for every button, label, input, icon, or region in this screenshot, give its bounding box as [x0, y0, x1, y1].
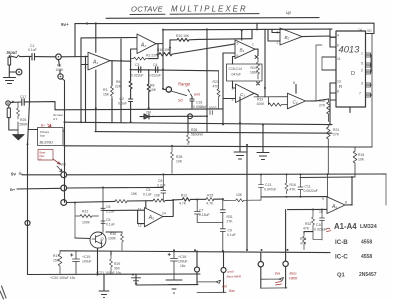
- wire rail right end drop: [373, 23, 375, 33]
- wire C3C4 line: [131, 70, 219, 71]
- svg-text:9: 9: [322, 197, 324, 201]
- op-amp A5: [144, 208, 163, 227]
- svg-text:13: 13: [337, 80, 341, 84]
- svg-text:.0033: .0033: [208, 106, 217, 110]
- svg-text:flow: flow: [229, 289, 235, 293]
- svg-text:0.1uF: 0.1uF: [227, 233, 236, 237]
- bus wire y131.5: [95, 132, 332, 134]
- node circle on left bus: [25, 221, 30, 226]
- left bus vertical x27.5: [28, 57, 30, 275]
- svg-text:47K: 47K: [303, 227, 310, 231]
- RANGE switch ring: [166, 87, 171, 92]
- svg-text:in: in: [40, 158, 43, 161]
- svg-text:R17: R17: [53, 254, 59, 258]
- svg-text:C3: C3: [135, 63, 139, 67]
- svg-text:2N5457: 2N5457: [359, 272, 377, 278]
- svg-text:A₁: A₁: [92, 60, 98, 66]
- wire y198 feedback: [173, 198, 223, 201]
- svg-text:R24: R24: [251, 66, 257, 70]
- wire y177 feedback: [300, 176, 355, 179]
- BLEND box: [38, 128, 64, 146]
- svg-text:C17: C17: [20, 95, 26, 99]
- vertical x121: [120, 39, 122, 122]
- wire jack sleeve bar: [9, 65, 16, 72]
- 9V supply rail: [75, 22, 374, 24]
- svg-text:Pickups: Pickups: [40, 130, 50, 134]
- svg-text:up: up: [286, 10, 292, 15]
- node circle on y116: [188, 114, 193, 119]
- svg-text:16v: 16v: [180, 264, 186, 268]
- red arrow to AMP: [53, 159, 60, 164]
- input jack J1: [8, 57, 11, 65]
- wire R1 column: [59, 60, 65, 203]
- node D circle: [61, 172, 67, 178]
- wire x352 down to A6 out: [351, 177, 353, 205]
- title underline: [130, 13, 259, 16]
- output jack J2 tip node: [6, 101, 10, 105]
- svg-text:10K: 10K: [236, 193, 243, 197]
- svg-text:+C21 100uF 16v: +C21 100uF 16v: [96, 271, 121, 275]
- ground small x136: [132, 278, 141, 284]
- arrow to node D: [57, 166, 62, 172]
- 4013 pin left y100: [330, 99, 336, 101]
- vertical x207 dark: [206, 29, 208, 131]
- svg-text:2: 2: [361, 69, 363, 73]
- bus from node D: [66, 173, 386, 176]
- svg-text:0.1uF: 0.1uF: [106, 223, 115, 227]
- svg-text:10K: 10K: [358, 158, 365, 162]
- wire R12 to Q1 gate: [75, 237, 90, 240]
- capacitor box C15,C14: [227, 64, 263, 81]
- svg-text:R: R: [339, 84, 342, 89]
- wire jack2 to C17: [10, 101, 21, 104]
- svg-text:graß: graß: [228, 270, 234, 274]
- bus y285: [104, 274, 198, 290]
- svg-text:B+: B+: [10, 187, 16, 192]
- svg-text:8: 8: [293, 81, 295, 85]
- svg-text:Bass: Bass: [290, 272, 297, 276]
- red scribbles arrows: [276, 282, 282, 286]
- wire x109 link: [110, 251, 112, 255]
- svg-text:4558: 4558: [361, 240, 372, 246]
- svg-text:5: 5: [361, 62, 363, 66]
- op-amp A1: [88, 52, 110, 70]
- wire Q1 drain up: [101, 188, 105, 233]
- ring node circle: [16, 69, 22, 75]
- check mark jack2: [11, 101, 14, 103]
- op-amp B1 (IC-B): [235, 40, 255, 59]
- svg-text:5: 5: [237, 42, 239, 46]
- switch lever: [171, 91, 187, 96]
- wire B1 output: [255, 29, 265, 97]
- svg-text:100K: 100K: [257, 102, 266, 106]
- svg-text:590R: 590R: [20, 123, 29, 127]
- svg-text:Amp: Amp: [59, 163, 67, 167]
- svg-text:LM324: LM324: [360, 224, 377, 230]
- svg-text:A1-A4: A1-A4: [334, 222, 357, 231]
- svg-text:11: 11: [138, 208, 142, 212]
- node circle H: [258, 262, 263, 267]
- bus wire y108: [55, 108, 223, 111]
- 4013 pin left y47: [330, 46, 336, 48]
- wire right bus x386: [385, 174, 387, 205]
- 4013 pin 4: [330, 36, 336, 38]
- ground (C18): [166, 280, 182, 293]
- svg-text:4013: 4013: [339, 44, 361, 55]
- svg-text:27K: 27K: [319, 104, 326, 108]
- svg-text:27K: 27K: [227, 220, 234, 224]
- wire jack2 stem: [9, 118, 18, 130]
- svg-text:B+: B+: [41, 124, 45, 128]
- svg-text:VD: VD: [367, 29, 372, 33]
- svg-text:47K: 47K: [290, 188, 297, 192]
- svg-text:C15,C14: C15,C14: [229, 67, 242, 71]
- svg-text:C13: C13: [265, 183, 271, 187]
- op-amp B2: [280, 28, 302, 45]
- svg-text:C16: C16: [196, 101, 202, 105]
- wire jog to R15: [355, 146, 372, 148]
- svg-text:R15: R15: [358, 153, 364, 157]
- wire switch to x163: [163, 88, 166, 90]
- wire B2 output to 4013: [302, 36, 336, 37]
- svg-text:14: 14: [162, 212, 166, 216]
- wire x247 drop: [246, 145, 248, 250]
- x mark top: [255, 56, 258, 59]
- svg-text:C2: C2: [120, 97, 124, 101]
- wire A5 input loop: [138, 210, 145, 223]
- ground (mid x263): [257, 125, 269, 160]
- svg-text:180K: 180K: [250, 71, 259, 75]
- svg-text:R28: R28: [176, 155, 182, 159]
- wire x223 vertical: [222, 53, 224, 124]
- svg-text:1: 1: [361, 52, 363, 56]
- ground small x104: [99, 291, 109, 298]
- svg-text:A₆: A₆: [331, 204, 337, 210]
- svg-text:R22: R22: [257, 98, 263, 102]
- svg-text:4: 4: [337, 34, 339, 38]
- svg-text:Input: Input: [7, 50, 18, 55]
- wire input to C1: [9, 56, 31, 58]
- output jack J2 body: [7, 105, 10, 117]
- capacitor C4: [156, 67, 158, 73]
- svg-text:C9: C9: [228, 229, 232, 233]
- node F circle: [61, 200, 67, 206]
- bus wire y145: [65, 146, 355, 147]
- svg-text:R10 10K: R10 10K: [176, 34, 190, 38]
- svg-text:0.022uF: 0.022uF: [314, 228, 326, 232]
- 4013 pin left y93: [330, 92, 336, 94]
- svg-text:9v+: 9v+: [61, 22, 69, 27]
- svg-text:10K: 10K: [154, 193, 161, 197]
- svg-text:B₁: B₁: [240, 48, 245, 53]
- svg-text:0.1uF: 0.1uF: [143, 193, 152, 197]
- svg-text:1: 1: [252, 43, 254, 47]
- svg-text:11: 11: [337, 57, 341, 61]
- bus from node E: [66, 186, 162, 189]
- wire A6 output: [345, 204, 352, 206]
- node circle I: [283, 261, 288, 266]
- 4013 right pin bumps: [366, 53, 371, 57]
- parts list text block: [334, 222, 377, 279]
- svg-text:47K: 47K: [300, 242, 307, 246]
- wire R26 junction: [187, 116, 189, 133]
- 4013 pin 14 top right: [366, 33, 375, 35]
- svg-text:IC-B: IC-B: [335, 239, 348, 246]
- svg-text:R32: R32: [305, 222, 311, 226]
- svg-text:Bass: Bass: [40, 151, 47, 155]
- svg-text:0.0068uF: 0.0068uF: [193, 105, 207, 109]
- svg-text:0.15uF: 0.15uF: [199, 213, 210, 217]
- svg-text:0.047uF: 0.047uF: [264, 188, 276, 192]
- svg-text:.047uF: .047uF: [231, 73, 242, 77]
- IC 4013 box: [336, 31, 366, 107]
- ground (mid x240): [234, 97, 246, 159]
- bottom bus y250.7: [60, 251, 330, 253]
- capacitor C1: [32, 54, 35, 61]
- vertical wire x75 rail to input line: [74, 24, 76, 57]
- svg-text:BLEND: BLEND: [40, 140, 53, 145]
- svg-text:27K: 27K: [333, 133, 340, 137]
- 4013 pin left y83: [330, 82, 336, 84]
- svg-text:4.7K: 4.7K: [179, 202, 187, 206]
- svg-text:C5: C5: [146, 188, 150, 192]
- node circle G2: [221, 268, 226, 273]
- 4013 pin right y85: [366, 84, 372, 86]
- wire x257 top: [256, 23, 258, 30]
- svg-text:0.1uF: 0.1uF: [28, 48, 37, 52]
- 4013 pin left y70: [322, 69, 336, 71]
- 4013 bottom pin stub: [349, 107, 351, 113]
- wire A6 input bottom y210: [288, 208, 328, 210]
- svg-text:A₅: A₅: [148, 215, 154, 221]
- wire blend box to bus: [28, 130, 65, 132]
- svg-text:4558: 4558: [361, 254, 372, 260]
- svg-text:8: 8: [345, 201, 347, 205]
- wire R3 to bus: [111, 99, 113, 123]
- svg-text:0.022uF: 0.022uF: [131, 74, 143, 78]
- op-amp A6: [327, 197, 345, 214]
- red scribble mark: [326, 228, 331, 231]
- svg-text:R13: R13: [181, 193, 187, 197]
- switch contacts: [188, 90, 192, 97]
- svg-text:9v: 9v: [11, 172, 16, 177]
- wire x316 loop vertical: [316, 45, 322, 101]
- wire B2 inputs: [268, 29, 280, 41]
- svg-text:100uF: 100uF: [82, 260, 92, 264]
- wire node to A1: [61, 56, 88, 58]
- svg-text:R18 10K: R18 10K: [157, 48, 171, 52]
- wire bias column x85.5: [85, 57, 87, 123]
- svg-text:wot: wot: [194, 93, 201, 97]
- svg-text:MULTIPLEXER: MULTIPLEXER: [171, 5, 248, 14]
- svg-text:C8: C8: [106, 205, 110, 209]
- wire A6 input top y200.5: [261, 196, 327, 198]
- wire C1 output: [254, 93, 258, 97]
- svg-text:3: 3: [361, 82, 363, 86]
- svg-text:R21: R21: [333, 128, 339, 132]
- svg-text:Bass-filt€R: Bass-filt€R: [227, 275, 242, 279]
- wire A1 output: [110, 59, 131, 70]
- svg-text:C11: C11: [305, 185, 311, 189]
- svg-text:15K: 15K: [131, 192, 138, 196]
- wire A1 feedback top link: [81, 23, 137, 122]
- svg-text:the base: the base: [53, 113, 64, 117]
- svg-text:100K: 100K: [108, 237, 117, 241]
- svg-text:100uF: 100uF: [178, 260, 188, 264]
- svg-text:14: 14: [358, 28, 362, 32]
- 4013 pin right y72: [366, 71, 372, 73]
- svg-text:470: 470: [213, 85, 219, 89]
- wire B1 top pin from bus: [241, 30, 243, 40]
- svg-text:R3: R3: [103, 88, 107, 92]
- junction dot on rail: [86, 22, 88, 24]
- wire right of 4013 x372: [371, 34, 372, 148]
- svg-text:0.022uF: 0.022uF: [149, 74, 161, 78]
- wire C2 output: [306, 100, 317, 102]
- svg-text:R23: R23: [213, 80, 219, 84]
- svg-text:22K: 22K: [115, 85, 122, 89]
- node E circle: [61, 185, 67, 191]
- wire A5 output: [163, 200, 173, 217]
- svg-text:Q1: Q1: [337, 273, 346, 279]
- svg-text:560ohm: 560ohm: [191, 133, 203, 137]
- wire A2 output: [156, 30, 163, 89]
- node A circle: [56, 54, 62, 60]
- bus wire y122: [65, 122, 333, 124]
- svg-text:+C20 100uF 16v: +C20 100uF 16v: [50, 276, 75, 280]
- svg-text:A₂: A₂: [140, 43, 146, 49]
- wire x304: [304, 232, 313, 233]
- svg-text:6: 6: [237, 54, 239, 58]
- svg-text:R15: R15: [207, 193, 213, 197]
- corner scan mark: [0, 286, 6, 299]
- svg-text:Filt€R: Filt€R: [289, 277, 298, 281]
- svg-text:B₂: B₂: [285, 35, 290, 40]
- svg-text:7: 7: [359, 92, 361, 96]
- loop wire left of 4013: [321, 57, 323, 70]
- op-amp C2: [287, 93, 305, 109]
- svg-text:R25: R25: [20, 118, 26, 122]
- svg-text:R31: R31: [227, 215, 233, 219]
- svg-text:+C19: +C19: [82, 255, 90, 259]
- wire Q1 source down: [98, 232, 123, 275]
- svg-text:of it: of it: [53, 117, 57, 121]
- op-amp A2: [137, 34, 156, 54]
- capacitor C3: [139, 67, 141, 73]
- svg-text:R26: R26: [191, 128, 197, 132]
- wire y29.5 upper bus: [163, 28, 332, 31]
- ground (input jack): [4, 72, 16, 84]
- svg-text:6: 6: [337, 44, 339, 48]
- svg-text:390: 390: [114, 267, 120, 271]
- bottom bus y274.8: [28, 273, 201, 276]
- svg-text:Q: Q: [101, 236, 104, 241]
- svg-text:R30: R30: [110, 232, 116, 236]
- node circle G: [195, 267, 200, 272]
- wire C1 to node: [35, 56, 56, 58]
- wire A1 lower input: [81, 64, 88, 66]
- svg-text:Range: Range: [178, 82, 191, 87]
- svg-text:8va: 8va: [275, 272, 280, 276]
- long rule under title: [106, 17, 319, 20]
- svg-text:Sd: Sd: [178, 99, 184, 103]
- svg-text:IC-C: IC-C: [335, 254, 348, 261]
- svg-text:R12: R12: [82, 210, 88, 214]
- 4013 pin left y57: [322, 56, 336, 58]
- wire below A1: [96, 61, 112, 132]
- svg-text:C10: C10: [316, 223, 322, 227]
- wire 9V to node D: [22, 174, 61, 176]
- bus from node F: [66, 200, 173, 202]
- svg-text:10K: 10K: [150, 88, 157, 92]
- node B circle (pot wiper): [58, 74, 63, 79]
- svg-text:R6: R6: [116, 80, 120, 84]
- svg-text:OCTAVE: OCTAVE: [131, 5, 164, 14]
- wire A5 top pin stub: [145, 201, 147, 208]
- wire B1 lower input: [223, 53, 235, 64]
- wire C1 inputs: [223, 81, 236, 99]
- pot arrow bass: [261, 278, 287, 289]
- svg-text:D: D: [351, 71, 355, 77]
- svg-text:C₁: C₁: [240, 92, 245, 97]
- svg-text:loop: loop: [40, 134, 45, 138]
- svg-text:10K: 10K: [176, 160, 183, 164]
- ground (filled triangle): [13, 122, 25, 140]
- svg-text:wet: wet: [222, 285, 227, 289]
- transistor Q1: [90, 232, 106, 248]
- svg-text:C₂: C₂: [293, 100, 298, 105]
- svg-text:15K: 15K: [103, 93, 110, 97]
- 4013 pin right y55: [366, 54, 372, 56]
- svg-text:C4: C4: [153, 63, 157, 67]
- svg-text:0.0022uF: 0.0022uF: [304, 189, 318, 193]
- svg-text:C8: C8: [158, 179, 162, 183]
- svg-text:+C18: +C18: [178, 255, 186, 259]
- svg-text:C5: C5: [106, 218, 110, 222]
- svg-text:100K: 100K: [82, 221, 91, 225]
- svg-text:8: 8: [337, 90, 339, 94]
- 4013 pin right y65: [366, 64, 372, 66]
- x mark bottom: [257, 82, 260, 85]
- bus wire y116: [140, 115, 207, 117]
- capacitor C21 small: [210, 111, 212, 115]
- wire C2 inputs: [295, 85, 297, 94]
- svg-text:4.7K: 4.7K: [206, 202, 214, 206]
- svg-text:R29: R29: [114, 262, 120, 266]
- svg-text:R16: R16: [290, 183, 296, 187]
- svg-text:0.5uF: 0.5uF: [118, 102, 127, 106]
- svg-text:2M: 2M: [146, 111, 151, 115]
- wire C17 right to left bus: [24, 102, 55, 110]
- 4013 pin right y95 VSS: [366, 94, 373, 96]
- wire C2 out to R20: [316, 99, 329, 101]
- capacitor C17: [22, 99, 24, 106]
- BOOST FILTER red note box: [38, 150, 53, 161]
- op-amp C1 (IC-C): [236, 84, 255, 103]
- jack switch check mark: [17, 55, 21, 57]
- wire A5 upper input: [103, 209, 144, 211]
- pot arrow wet/dry: [197, 280, 226, 292]
- wire 4013 left pins to bus: [329, 29, 331, 124]
- wire A2 lower input: [131, 49, 137, 59]
- title: OCTAVE MULTIPLEXER: [131, 5, 292, 16]
